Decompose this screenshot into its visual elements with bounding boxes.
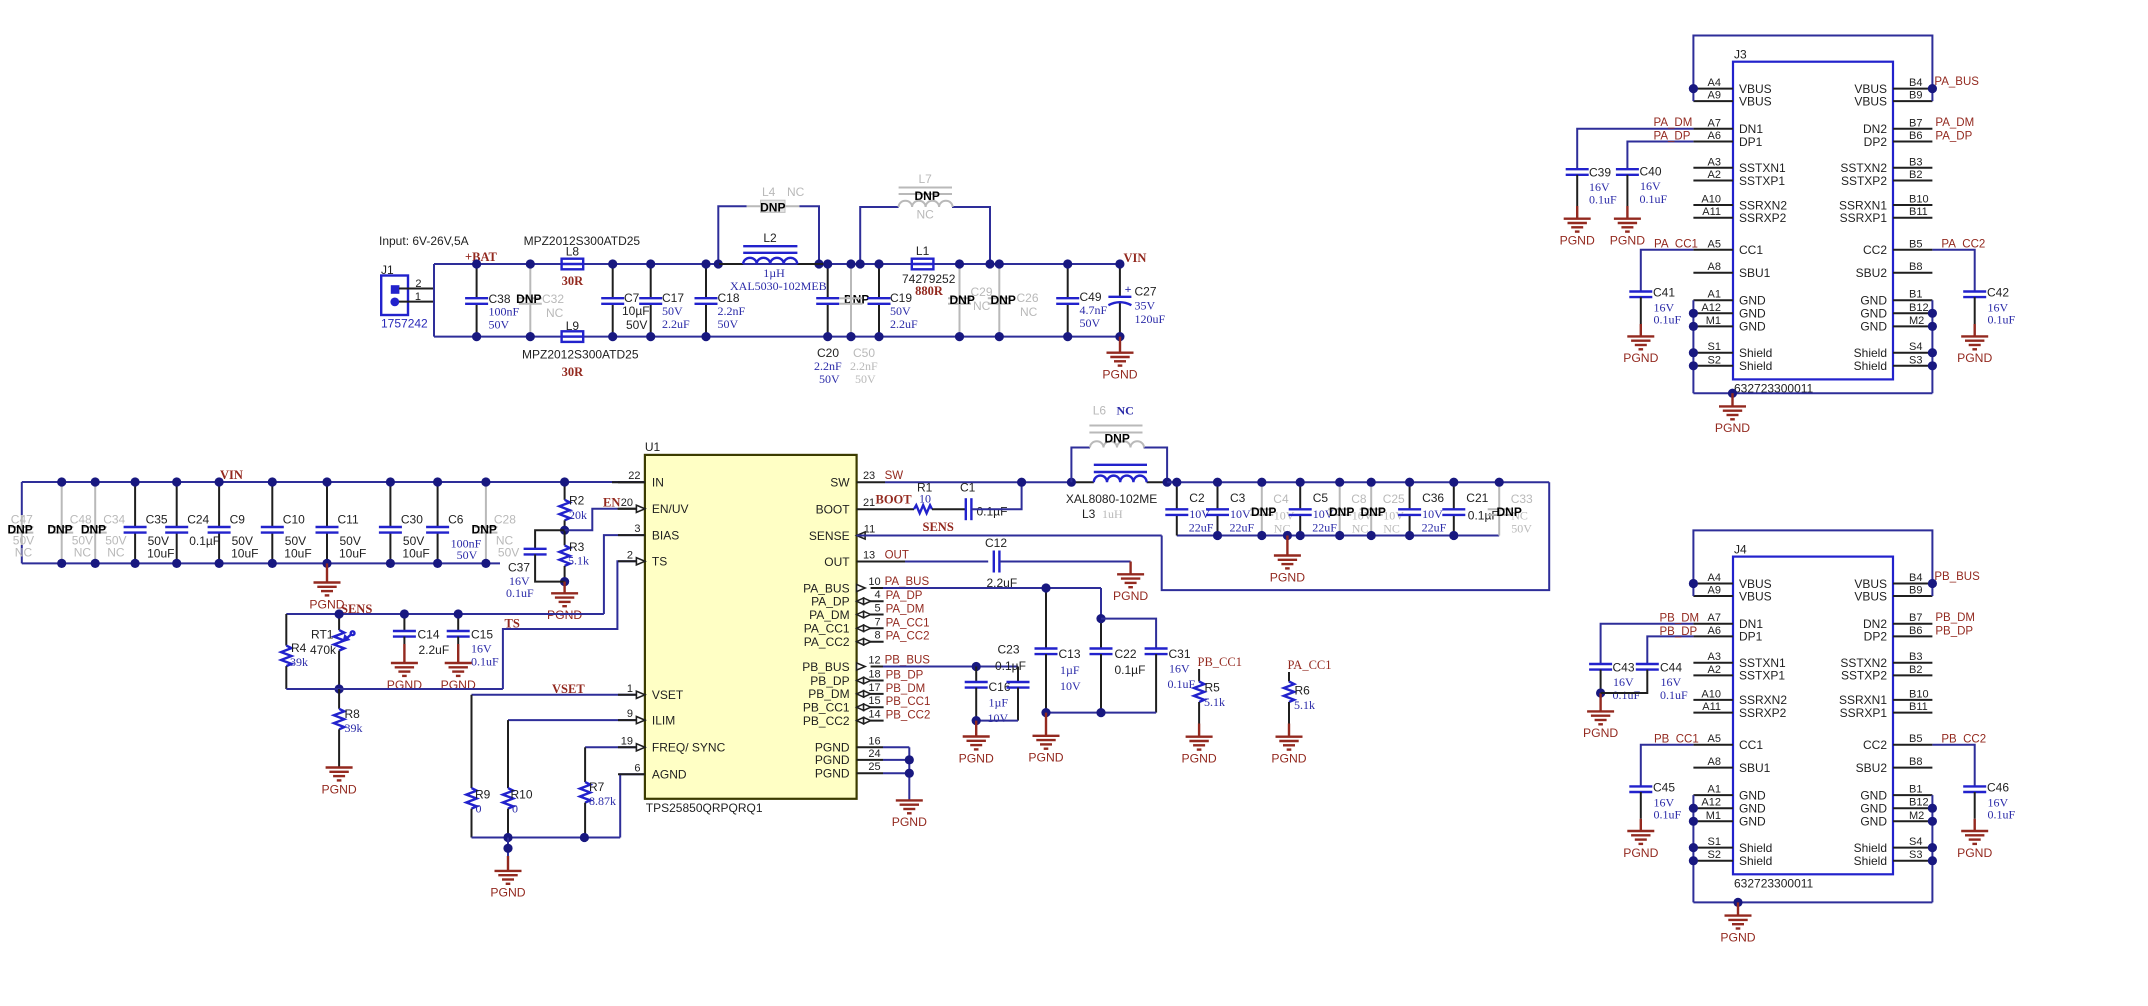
pin B3 SSTXN2 of J3 [1893, 167, 1932, 169]
svg-text:Shield: Shield [1854, 841, 1887, 855]
ferrite bead L9 [562, 331, 584, 342]
pin 19 FREQ/ SYNC of U1 [618, 746, 645, 748]
svg-text:B5: B5 [1909, 238, 1922, 250]
resistor R8 [338, 689, 340, 709]
svg-text:NC: NC [973, 299, 991, 313]
svg-text:VSET: VSET [552, 682, 585, 696]
svg-text:C36: C36 [1422, 491, 1444, 505]
svg-text:VBUS: VBUS [1739, 589, 1772, 603]
svg-text:DP1: DP1 [1739, 630, 1763, 644]
svg-text:C39: C39 [1589, 166, 1611, 180]
svg-text:GND: GND [1860, 320, 1887, 334]
svg-text:GND: GND [1739, 815, 1766, 829]
resistor R1 [914, 505, 932, 513]
svg-text:C2: C2 [1189, 491, 1205, 505]
svg-text:1µH: 1µH [763, 266, 785, 280]
svg-text:XAL8080-102ME: XAL8080-102ME [1066, 492, 1157, 506]
wire analog ground join [472, 837, 621, 839]
svg-text:B7: B7 [1909, 117, 1922, 129]
pin M1 GND of J3 [1693, 325, 1733, 327]
svg-text:A9: A9 [1708, 585, 1721, 597]
resistor R4 [285, 614, 287, 646]
svg-text:1µF: 1µF [989, 696, 1009, 710]
capacitor C37 [535, 530, 565, 549]
svg-text:NC: NC [74, 546, 92, 560]
svg-text:PA_DM: PA_DM [886, 604, 925, 616]
node R3 bottom [560, 577, 569, 586]
svg-text:PB_DP: PB_DP [1935, 625, 1973, 637]
resistor R2 [564, 482, 566, 500]
svg-text:NC: NC [1352, 522, 1369, 536]
svg-text:PB_CC1: PB_CC1 [803, 701, 850, 715]
svg-text:10uF: 10uF [339, 547, 366, 561]
capacitor C7 [612, 264, 614, 298]
svg-text:B10: B10 [1909, 688, 1929, 700]
svg-text:0.1uF: 0.1uF [1640, 192, 1668, 206]
capacitor C13 [1045, 588, 1047, 649]
wire VIN rail [22, 481, 645, 483]
svg-text:S4: S4 [1909, 341, 1922, 353]
wire PA caps bottom [1046, 712, 1156, 714]
svg-text:C5: C5 [1313, 491, 1329, 505]
node R2/R3/EN [560, 526, 569, 535]
svg-text:L6: L6 [1093, 404, 1107, 418]
svg-text:SBU1: SBU1 [1739, 266, 1771, 280]
svg-text:CC2: CC2 [1863, 738, 1887, 752]
svg-text:22uF: 22uF [1189, 521, 1214, 535]
svg-text:PB_BUS: PB_BUS [885, 655, 931, 667]
svg-text:GND: GND [1739, 307, 1766, 321]
svg-text:C26: C26 [1017, 291, 1039, 305]
wire PA_BUS drop to C22 [1100, 588, 1102, 619]
svg-text:PGND: PGND [490, 886, 525, 900]
svg-text:10V: 10V [1230, 507, 1251, 521]
pin B5 CC2 of J3 [1893, 249, 1932, 251]
svg-text:C37: C37 [508, 561, 530, 575]
svg-text:C30: C30 [401, 513, 423, 527]
capacitor C19 [878, 264, 880, 298]
svg-text:50V: 50V [457, 548, 478, 562]
svg-text:A11: A11 [1702, 701, 1721, 713]
wire PB_DP to J4 [1647, 636, 1693, 664]
svg-text:C31: C31 [1169, 647, 1191, 661]
capacitor C26 (DNP, NC) [998, 264, 1000, 337]
svg-text:50V: 50V [890, 304, 911, 318]
svg-text:C28: C28 [494, 513, 516, 527]
wire GND/Shield right of J4 [1931, 795, 1933, 902]
svg-text:C15: C15 [471, 628, 493, 642]
ground PGND below C13 [1045, 713, 1047, 736]
svg-text:30R: 30R [562, 365, 585, 379]
svg-text:SW: SW [830, 476, 850, 490]
svg-text:13: 13 [863, 550, 875, 562]
svg-text:16V: 16V [1661, 675, 1682, 689]
svg-text:C23: C23 [998, 643, 1020, 657]
svg-text:GND: GND [1860, 294, 1887, 308]
svg-text:PA_BUS: PA_BUS [803, 581, 849, 595]
capacitor C10 [271, 482, 273, 527]
svg-text:A7: A7 [1708, 612, 1721, 624]
wire BOOT segment [857, 508, 914, 510]
wire J1 to rails [433, 264, 435, 337]
pin M2 GND of J3 [1893, 325, 1932, 327]
svg-text:DNP: DNP [760, 201, 785, 215]
svg-text:PA_BUS: PA_BUS [1934, 76, 1979, 88]
svg-text:PGND: PGND [815, 767, 850, 781]
svg-text:C43: C43 [1613, 661, 1635, 675]
capacitor C1 [965, 498, 967, 520]
svg-text:C49: C49 [1080, 290, 1102, 304]
pin S3 Shield of J4 [1893, 860, 1932, 862]
capacitor C23 [1007, 681, 1030, 683]
svg-text:PGND: PGND [1623, 351, 1658, 365]
connector J3 body [1733, 62, 1893, 380]
pin A9 VBUS of J3 [1693, 100, 1733, 102]
pin S4 Shield of J4 [1893, 847, 1932, 849]
svg-text:22uF: 22uF [1312, 521, 1337, 535]
svg-text:0.1uF: 0.1uF [1654, 313, 1682, 327]
svg-text:TPS25850QRPQRQ1: TPS25850QRPQRQ1 [646, 801, 763, 815]
wire bottom ground of J4 [1693, 901, 1932, 903]
ground PGND below C46 [1973, 819, 1975, 831]
svg-text:B3: B3 [1909, 156, 1922, 168]
ground PGND below C14 [403, 644, 405, 663]
svg-text:PB_CC2: PB_CC2 [1941, 733, 1986, 745]
capacitor C5 [1299, 482, 1301, 509]
svg-text:C9: C9 [230, 513, 246, 527]
svg-text:BOOT: BOOT [876, 493, 913, 507]
svg-text:NC: NC [1117, 404, 1134, 418]
pin 2 of J1 [399, 288, 434, 290]
svg-text:C10: C10 [283, 513, 305, 527]
wire SENSE net [857, 535, 1162, 537]
svg-text:0.1uF: 0.1uF [1988, 808, 2016, 822]
svg-text:0: 0 [476, 802, 482, 816]
svg-text:15: 15 [868, 695, 880, 707]
svg-text:C34: C34 [103, 513, 125, 527]
svg-text:0: 0 [512, 802, 518, 816]
wire top rail +BAT/VIN input [434, 263, 1122, 265]
svg-text:DNP: DNP [7, 523, 32, 537]
svg-text:AGND: AGND [652, 768, 687, 782]
wire output cap ground rail [1177, 535, 1499, 537]
svg-text:C21: C21 [1466, 491, 1488, 505]
svg-text:Input: 6V-26V,5A: Input: 6V-26V,5A [379, 234, 469, 248]
svg-text:120uF: 120uF [1135, 312, 1166, 326]
svg-text:19: 19 [621, 735, 633, 747]
pin 22 IN of U1 [618, 481, 645, 483]
ground PGND below C41 [1640, 324, 1642, 336]
wire bank ground rail [22, 562, 500, 564]
wire C1 to SW [971, 482, 1021, 509]
svg-text:S1: S1 [1708, 836, 1721, 848]
svg-text:PGND: PGND [1270, 570, 1305, 584]
svg-text:SBU2: SBU2 [1856, 761, 1888, 775]
svg-text:A1: A1 [1708, 289, 1721, 301]
svg-text:9: 9 [627, 708, 633, 720]
wire PA_CC1 to C41 [1641, 250, 1694, 292]
capacitor C46 [1963, 785, 1986, 787]
svg-text:SSTXP1: SSTXP1 [1739, 174, 1785, 188]
svg-text:DNP: DNP [1361, 505, 1386, 519]
svg-text:PA_CC2: PA_CC2 [1941, 239, 1985, 251]
svg-text:4: 4 [874, 589, 880, 601]
pin 20 EN/UV of U1 [618, 508, 645, 510]
ground PGND analog [507, 856, 509, 871]
svg-text:2.2uF: 2.2uF [419, 643, 450, 657]
svg-text:SBU1: SBU1 [1739, 761, 1771, 775]
svg-text:R7: R7 [589, 780, 605, 794]
pin 9 ILIM of U1 [618, 719, 645, 721]
svg-text:NC: NC [787, 185, 805, 199]
node output ground stem [1283, 531, 1292, 540]
pin A1 GND of J4 [1693, 794, 1733, 796]
capacitor C3 [1217, 482, 1219, 509]
svg-text:C29: C29 [971, 285, 993, 299]
pin 6 AGND of U1 [618, 773, 645, 775]
svg-text:ILIM: ILIM [652, 713, 675, 727]
svg-text:PA_CC2: PA_CC2 [886, 631, 930, 643]
svg-text:4.7nF: 4.7nF [1080, 303, 1108, 317]
pin B9 VBUS of J3 [1893, 100, 1932, 102]
svg-text:L3: L3 [1082, 507, 1096, 521]
ground PGND below R5 [1198, 724, 1200, 737]
pin 1 VSET of U1 [618, 694, 645, 696]
svg-text:PB_CC2: PB_CC2 [803, 714, 850, 728]
pin A8 SBU1 of J4 [1693, 767, 1733, 769]
pin B11 SSRXP1 of J3 [1893, 217, 1932, 219]
capacitor C22 [1100, 619, 1102, 649]
svg-text:SENSE: SENSE [809, 529, 850, 543]
svg-text:PGND: PGND [1560, 234, 1595, 248]
pin B1 GND of J3 [1893, 299, 1932, 301]
svg-text:C3: C3 [1230, 491, 1246, 505]
svg-text:L9: L9 [566, 319, 580, 333]
svg-text:16V: 16V [471, 642, 492, 656]
svg-text:PGND: PGND [959, 751, 994, 765]
svg-text:16: 16 [868, 735, 880, 747]
svg-text:PA_DM: PA_DM [809, 608, 849, 622]
capacitor C18 [705, 264, 707, 298]
pin A6 DP1 of J4 [1693, 635, 1733, 637]
svg-text:PA_DP: PA_DP [1654, 131, 1691, 143]
svg-text:A12: A12 [1701, 797, 1721, 809]
svg-text:B1: B1 [1909, 289, 1922, 301]
svg-text:1uH: 1uH [1102, 507, 1123, 521]
svg-text:0.1uF: 0.1uF [1988, 313, 2016, 327]
svg-text:2: 2 [415, 278, 421, 290]
svg-text:GND: GND [1860, 788, 1887, 802]
svg-text:A2: A2 [1708, 169, 1721, 181]
capacitor C8 (DNP, NC) [1339, 482, 1341, 535]
svg-text:SSRXP1: SSRXP1 [1840, 211, 1888, 225]
svg-text:L4: L4 [762, 185, 776, 199]
svg-text:U1: U1 [645, 440, 661, 454]
pin A7 DN1 of J4 [1693, 623, 1733, 625]
pin A6 DP1 of J3 [1693, 141, 1733, 143]
svg-text:GND: GND [1860, 802, 1887, 816]
svg-text:1757242: 1757242 [381, 317, 428, 331]
pin M1 GND of J4 [1693, 820, 1733, 822]
svg-text:C20: C20 [817, 346, 839, 360]
svg-text:0.1µF: 0.1µF [189, 534, 220, 548]
svg-text:B11: B11 [1909, 206, 1928, 218]
svg-text:0.1µF: 0.1µF [977, 505, 1008, 519]
svg-text:0.1µF: 0.1µF [995, 659, 1026, 673]
thermistor RT1 [338, 614, 340, 630]
ground PGND below C42 [1973, 324, 1975, 336]
pin B2 SSTXP2 of J4 [1893, 674, 1932, 676]
svg-text:A4: A4 [1708, 572, 1721, 584]
svg-text:DP2: DP2 [1864, 135, 1888, 149]
pin B1 GND of J4 [1893, 794, 1932, 796]
svg-text:2.2nF: 2.2nF [814, 359, 842, 373]
svg-text:S2: S2 [1708, 354, 1721, 366]
svg-text:NC: NC [15, 546, 33, 560]
pin 22 IN wire stub [612, 481, 645, 483]
capacitor C20 [827, 264, 829, 298]
wire bottom rail input return [434, 336, 1120, 338]
svg-text:PGND: PGND [1113, 589, 1148, 603]
capacitor C11 [326, 482, 328, 527]
svg-text:2.2uF: 2.2uF [662, 317, 690, 331]
capacitor C31 [1101, 619, 1156, 649]
pin A11 SSRXP2 of J4 [1693, 712, 1733, 714]
svg-text:OUT: OUT [824, 555, 850, 569]
svg-text:0.1uF: 0.1uF [1654, 808, 1682, 822]
svg-text:PGND: PGND [815, 753, 850, 767]
pin A5 CC1 of J4 [1693, 744, 1733, 746]
svg-text:PB_DP: PB_DP [810, 674, 849, 688]
svg-text:22: 22 [628, 470, 640, 482]
pin B6 DP2 of J3 [1893, 141, 1932, 143]
svg-text:A4: A4 [1708, 77, 1721, 89]
svg-text:NC: NC [107, 546, 125, 560]
capacitor C45 [1629, 785, 1652, 787]
svg-text:M2: M2 [1909, 810, 1924, 822]
capacitor C36 [1409, 482, 1411, 509]
wire GND/Shield left of J4 [1692, 795, 1694, 902]
svg-text:PA_DM: PA_DM [1654, 117, 1693, 129]
polarized capacitor C27 [1119, 264, 1121, 297]
svg-text:8: 8 [874, 630, 880, 642]
svg-text:DNP: DNP [81, 523, 106, 537]
ground PGND output bank [1286, 536, 1288, 556]
wire FREQ/SYNC net [585, 746, 645, 748]
pin A2 SSTXP1 of J4 [1693, 674, 1733, 676]
svg-text:PA_CC1: PA_CC1 [804, 622, 850, 636]
svg-text:GND: GND [1860, 815, 1887, 829]
pin A9 VBUS of J4 [1693, 595, 1733, 597]
wire GND/Shield right of J3 [1931, 300, 1933, 393]
capacitor C15 [457, 614, 459, 631]
svg-text:J4: J4 [1734, 543, 1747, 557]
svg-text:1: 1 [415, 291, 421, 303]
svg-text:SSRXP2: SSRXP2 [1739, 706, 1787, 720]
node C43/C44 ground join [1596, 688, 1605, 697]
svg-text:S3: S3 [1909, 354, 1922, 366]
pin B3 SSTXN2 of J4 [1893, 662, 1932, 664]
svg-text:PB_CC2: PB_CC2 [886, 710, 931, 722]
svg-text:Shield: Shield [1854, 346, 1887, 360]
svg-text:10uF: 10uF [231, 547, 258, 561]
svg-text:50V: 50V [498, 546, 519, 560]
capacitor C38 [476, 264, 478, 298]
pin B9 VBUS of J4 [1893, 595, 1932, 597]
svg-text:C4: C4 [1273, 492, 1289, 506]
capacitor C33 (DNP, NC) [1498, 482, 1500, 535]
ground PGND of VIN bank [326, 563, 328, 582]
svg-text:S3: S3 [1909, 849, 1922, 861]
capacitor C25 (DNP, NC) [1370, 482, 1372, 535]
svg-text:35V: 35V [1135, 299, 1156, 313]
svg-text:GND: GND [1739, 802, 1766, 816]
svg-text:PA_DM: PA_DM [1935, 117, 1974, 129]
svg-text:NC: NC [1020, 305, 1038, 319]
capacitor C24 [176, 482, 178, 527]
svg-text:GND: GND [1739, 320, 1766, 334]
svg-text:R4: R4 [291, 641, 307, 655]
svg-text:C19: C19 [890, 291, 912, 305]
svg-text:C7: C7 [624, 291, 640, 305]
svg-text:C13: C13 [1059, 647, 1081, 661]
svg-text:PGND: PGND [1583, 726, 1618, 740]
svg-text:PB_DM: PB_DM [1935, 612, 1975, 624]
svg-text:B6: B6 [1909, 625, 1922, 637]
svg-text:B11: B11 [1909, 701, 1928, 713]
svg-text:R10: R10 [511, 788, 533, 802]
svg-text:0.1uF: 0.1uF [471, 655, 499, 669]
svg-text:A8: A8 [1708, 756, 1721, 768]
svg-text:VBUS: VBUS [1739, 94, 1772, 108]
inductor L6 (DNP, NC) [1071, 448, 1090, 483]
svg-text:PA_CC1: PA_CC1 [1288, 658, 1332, 672]
svg-text:7: 7 [874, 616, 880, 628]
svg-text:50V: 50V [1511, 522, 1532, 536]
svg-text:20: 20 [621, 497, 633, 509]
pin B7 DN2 of J4 [1893, 623, 1932, 625]
wire VBUS loop of J4 [1693, 530, 1932, 596]
svg-text:MPZ2012S300ATD25: MPZ2012S300ATD25 [524, 234, 641, 248]
svg-text:A10: A10 [1701, 688, 1721, 700]
svg-text:16V: 16V [1613, 675, 1634, 689]
pin A12 GND of J4 [1693, 807, 1733, 809]
svg-text:C22: C22 [1115, 647, 1137, 661]
pin A10 SSRXN2 of J3 [1693, 204, 1733, 206]
ground PGND below C40 [1626, 206, 1628, 219]
svg-text:SSRXP2: SSRXP2 [1739, 211, 1787, 225]
svg-text:2.2nF: 2.2nF [718, 304, 746, 318]
svg-text:SSTXP2: SSTXP2 [1841, 669, 1887, 683]
svg-text:C25: C25 [1383, 492, 1405, 506]
svg-text:MPZ2012S300ATD25: MPZ2012S300ATD25 [522, 348, 639, 362]
svg-text:22uF: 22uF [1230, 521, 1255, 535]
ground PGND below C45 [1640, 819, 1642, 831]
svg-text:PGND: PGND [309, 597, 344, 611]
svg-text:2: 2 [627, 549, 633, 561]
svg-text:B9: B9 [1909, 90, 1922, 102]
svg-text:10V: 10V [988, 711, 1009, 725]
svg-text:C46: C46 [1987, 781, 2009, 795]
svg-text:30R: 30R [562, 274, 585, 288]
pin A10 SSRXN2 of J4 [1693, 699, 1733, 701]
svg-text:B12: B12 [1909, 797, 1929, 809]
pin A3 SSTXN1 of J4 [1693, 662, 1733, 664]
wire PA_DP to J3 [1627, 142, 1693, 170]
svg-text:A3: A3 [1708, 156, 1721, 168]
svg-text:50V: 50V [626, 318, 647, 332]
svg-text:0.1uF: 0.1uF [1168, 677, 1196, 691]
